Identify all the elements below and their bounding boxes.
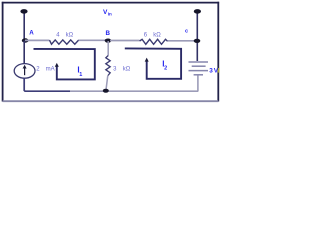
wire battery bottom lead: [197, 76, 199, 92]
resistor R3 3 kOhm top lead: [107, 41, 109, 56]
svg-text:c: c: [185, 29, 188, 35]
wire B to R2: [110, 40, 140, 42]
mesh loop I1 arrowhead: [55, 63, 59, 67]
resistor R3 3 kOhm zigzag: [106, 56, 110, 76]
wire R1 to B: [79, 39, 106, 41]
resistor R2 6 kOhm: [140, 39, 168, 44]
resistor R1 4 kOhm: [50, 40, 79, 44]
junction dot bottom rail: [103, 89, 109, 93]
resistor R3 bottom lead: [106, 76, 108, 91]
node A: [22, 38, 29, 42]
svg-text:A: A: [29, 30, 34, 37]
svg-text:B: B: [106, 30, 111, 37]
wire bottom rail: [70, 90, 198, 92]
node B: [105, 39, 112, 43]
mesh loop I1: [34, 49, 95, 80]
node Vin left terminal dot: [20, 9, 27, 14]
border frame bottom: [3, 100, 219, 102]
wire A to source: [23, 41, 25, 64]
svg-text:kΩ: kΩ: [123, 66, 131, 72]
mesh loop I2 arrowhead: [145, 58, 149, 62]
svg-text:1: 1: [79, 72, 82, 78]
svg-text:in: in: [108, 12, 112, 17]
wire: left top stub: [23, 12, 25, 41]
node c dot: [194, 39, 201, 43]
current source arrow: [24, 68, 26, 75]
wire A to R1: [25, 39, 50, 41]
svg-text:kΩ: kΩ: [153, 32, 161, 38]
battery V1 plates: [189, 61, 209, 63]
wire right stub / battery top lead: [196, 12, 198, 62]
svg-text:3V: 3V: [209, 68, 219, 75]
current source I 2mA: [14, 64, 35, 79]
node Vin right terminal dot: [194, 9, 201, 14]
border frame left: [2, 2, 4, 102]
wire R2 to node c: [168, 40, 198, 42]
svg-text:mA: mA: [46, 67, 55, 73]
wire source to bottom rail: [24, 78, 70, 91]
svg-text:2: 2: [164, 66, 167, 72]
mesh loop I2: [125, 48, 181, 78]
border frame top: [2, 2, 219, 4]
yellow artifact on border near 3V: [218, 68, 220, 73]
svg-text:kΩ: kΩ: [66, 32, 74, 38]
border frame right: [217, 2, 219, 102]
